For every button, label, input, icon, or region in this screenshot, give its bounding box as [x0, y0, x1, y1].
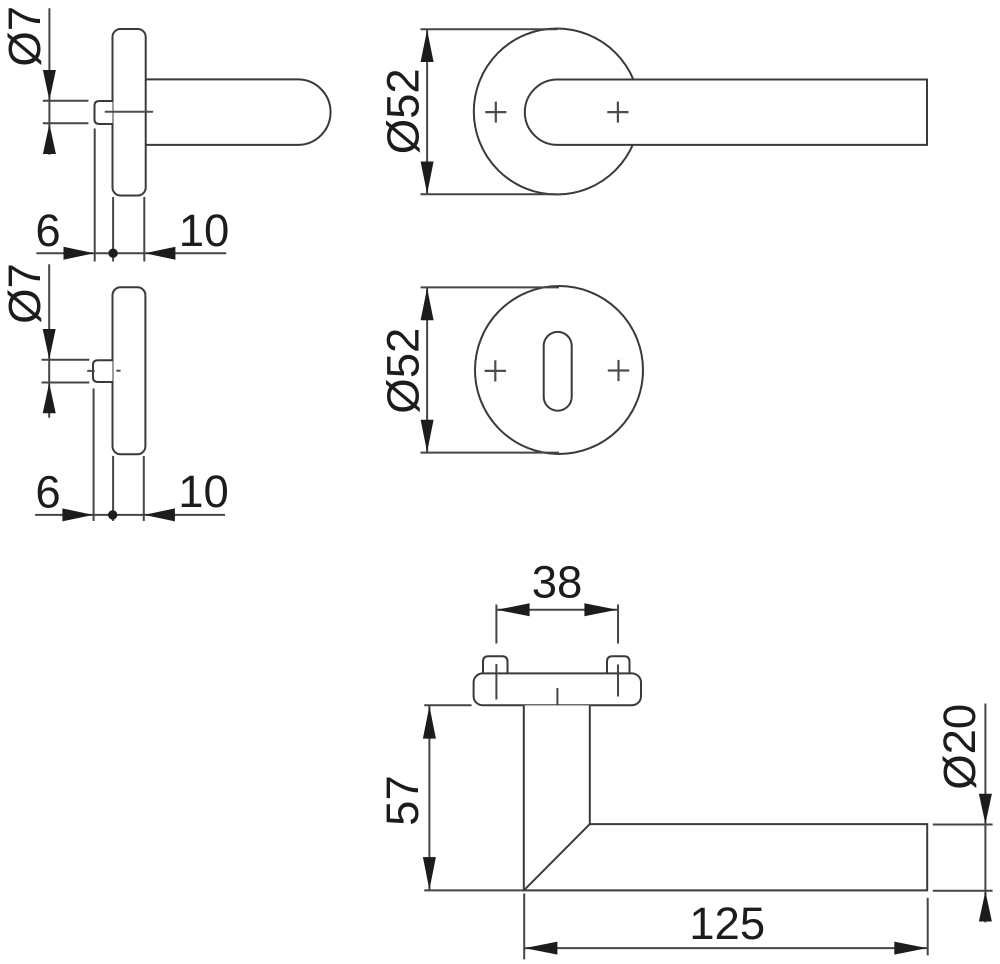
dimension Ø7 extension line bottom [43, 122, 89, 124]
svg-text:10: 10 [179, 205, 230, 256]
dimension 57 dim line [428, 705, 430, 890]
dimension Ø7 (top view) dim line [48, 8, 50, 154]
arrow up [43, 383, 56, 413]
rose (side view) [113, 29, 146, 196]
extension line at spindle face [94, 129, 96, 262]
dimension Ø7 (middle view) dim line [48, 264, 50, 418]
arrow right [584, 603, 617, 616]
extension line left [495, 605, 497, 644]
screw cap right [607, 656, 630, 673]
svg-text:Ø20: Ø20 [934, 704, 985, 790]
junction dot [108, 510, 117, 519]
arrow left [497, 603, 530, 616]
handle front outline [525, 80, 927, 145]
extension line top [42, 359, 90, 361]
extension line at rose back [143, 197, 145, 262]
arrow down [421, 162, 434, 194]
dimension Ø52 (top) dim line [426, 29, 428, 194]
dimension 6/10 (middle view) dim line [35, 514, 225, 516]
arrow up [423, 706, 436, 739]
extension line at spindle face [93, 389, 95, 522]
dimension Ø7 arrow up [43, 124, 56, 154]
arrow up [421, 30, 434, 62]
arrow down [979, 794, 992, 824]
extension line top [421, 28, 558, 30]
junction dot [108, 249, 117, 258]
handle grip bar (side view) [146, 79, 331, 144]
escutcheon circle [475, 286, 643, 454]
handle neck and grip (top view) [524, 705, 927, 890]
svg-text:10: 10 [178, 466, 229, 517]
plus mark left [485, 360, 506, 381]
dimension 125 dim line [524, 947, 927, 949]
extension line bottom [421, 452, 560, 454]
screw axis right [617, 665, 619, 697]
svg-text:6: 6 [35, 205, 60, 256]
extension line right [617, 605, 619, 644]
svg-text:Ø7: Ø7 [0, 263, 50, 324]
screw cap left [483, 656, 508, 673]
arrow left [525, 942, 558, 955]
extension line at rose face [112, 197, 114, 262]
axis tick left of cap [87, 370, 95, 372]
extension line at rose face [112, 456, 114, 521]
elbow miter line [524, 824, 590, 890]
svg-text:Ø52: Ø52 [378, 328, 429, 414]
dimension 10 arrow left [145, 247, 176, 260]
extension line right [927, 898, 929, 956]
plus mark left [485, 102, 506, 123]
dimension Ø20 dim line [984, 704, 986, 923]
extension line left [523, 894, 525, 960]
keyhole slot [544, 332, 572, 411]
arrow down [421, 420, 434, 452]
dimension Ø7 extension line top [43, 100, 89, 102]
arrow down [423, 857, 436, 890]
spindle cap (side view) [95, 101, 113, 124]
svg-text:125: 125 [689, 898, 765, 949]
extension line top [933, 824, 993, 826]
extension line bottom [421, 193, 558, 195]
extension line bottom [933, 890, 993, 892]
plus mark right [607, 102, 628, 123]
svg-text:6: 6 [35, 467, 60, 518]
dimension Ø7 arrow down [43, 70, 56, 100]
round rose circle [474, 29, 640, 195]
axis dash inside rose [116, 370, 120, 372]
spindle cap (side view) [93, 360, 113, 382]
arrow up [979, 891, 992, 921]
screw axis left [495, 664, 497, 700]
plate centre tick [556, 688, 558, 715]
plus mark right [608, 360, 629, 381]
dimension 38 dim line [496, 609, 617, 611]
svg-text:Ø7: Ø7 [0, 6, 50, 67]
dimension Ø52 (middle) dim line [426, 287, 428, 452]
svg-text:38: 38 [532, 557, 583, 608]
dimension 6 arrow right [64, 247, 95, 260]
extension line bottom [42, 382, 90, 384]
svg-text:57: 57 [377, 775, 428, 826]
rose plate (top view) [474, 673, 641, 705]
arrow up [421, 288, 434, 320]
rose (side view) [113, 287, 146, 454]
extension line top [424, 704, 471, 706]
svg-text:Ø52: Ø52 [378, 68, 429, 154]
arrow down [43, 329, 56, 359]
arrow right [894, 942, 927, 955]
dimension 10 arrow left [144, 508, 175, 521]
extension line bottom [424, 889, 523, 891]
extension line at rose back [143, 456, 145, 521]
spindle axis line [105, 111, 153, 113]
dimension 6 arrow right [62, 508, 93, 521]
dimension 6/10 (top view) dim line [36, 252, 226, 254]
extension line top [421, 286, 560, 288]
